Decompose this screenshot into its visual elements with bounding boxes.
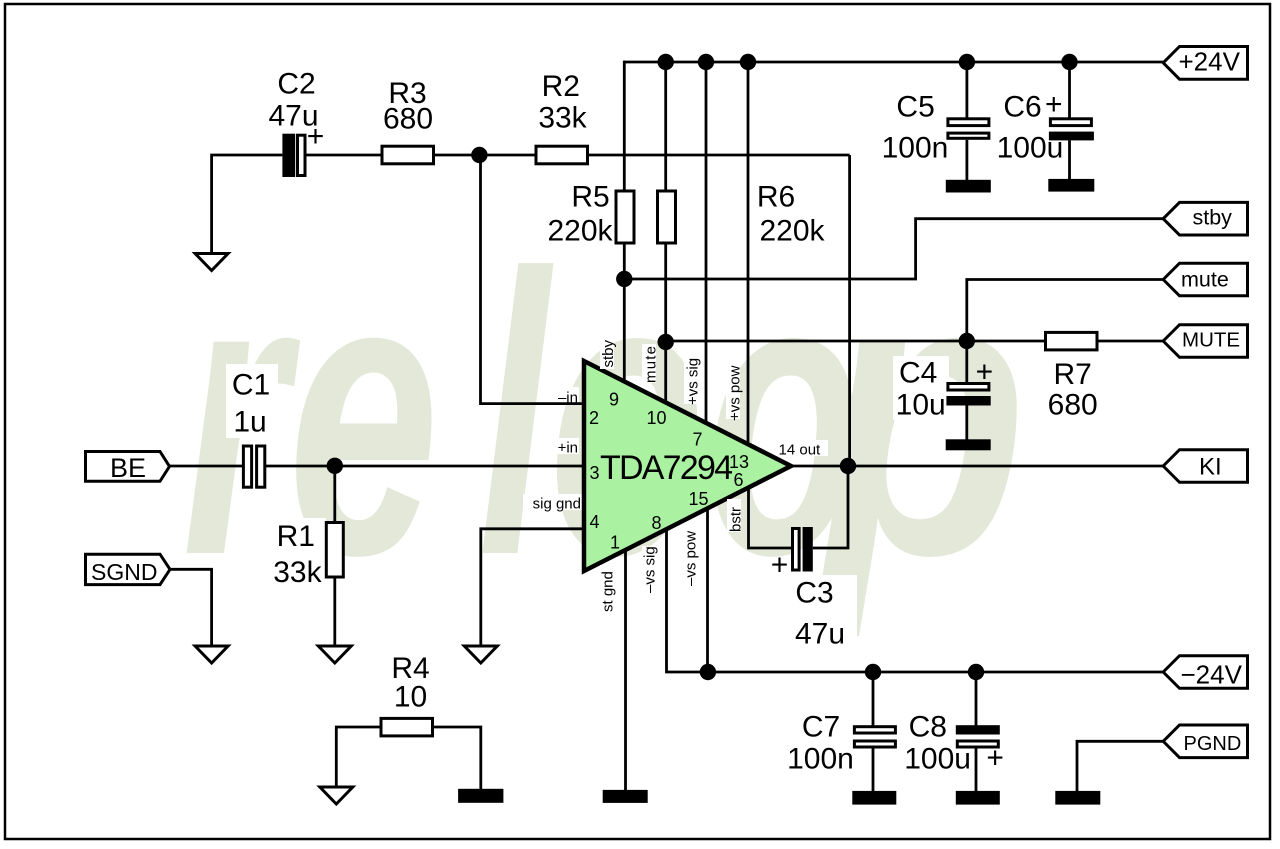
svg-text:33k: 33k	[538, 102, 587, 135]
op-amp U1 TDA7294	[584, 361, 791, 571]
wire C8 bottom	[975, 749, 978, 792]
flag BE	[86, 452, 170, 484]
wire C6 tap	[1068, 62, 1071, 118]
wire R6 to mute pin	[664, 243, 667, 402]
svg-text:9: 9	[609, 390, 619, 410]
wire C2 left to ground	[212, 155, 283, 254]
wire feedback vertical to output	[848, 155, 851, 466]
svg-text:10: 10	[646, 408, 666, 428]
flag stby	[1163, 202, 1247, 235]
wire C7 top	[872, 672, 875, 726]
pin label +vs pow	[726, 365, 744, 421]
resistor R5	[547, 181, 634, 248]
svg-text:SGND: SGND	[91, 559, 157, 585]
svg-text:R5: R5	[571, 181, 609, 214]
node rail mute	[658, 54, 674, 70]
capacitor C4	[893, 356, 993, 422]
svg-text:+: +	[307, 120, 325, 153]
svg-text:1: 1	[610, 533, 620, 553]
svg-text:+vs sig: +vs sig	[685, 358, 702, 405]
wire C1 to +in	[266, 465, 585, 468]
ground GND3 (SGND)	[195, 646, 228, 663]
ground bar C8	[956, 791, 1000, 805]
svg-text:+24V: +24V	[1179, 47, 1241, 77]
flag +24V	[1163, 47, 1247, 80]
svg-text:100u: 100u	[997, 132, 1064, 165]
wire C5 taps	[966, 62, 969, 118]
pin label +vs sig	[684, 357, 702, 405]
ground GND1 (C2)	[195, 254, 228, 271]
flag mute	[1163, 263, 1247, 296]
wire C4 bottom	[965, 406, 968, 440]
wire st gnd line	[624, 549, 627, 790]
svg-text:220k: 220k	[547, 215, 613, 248]
node mute pin	[658, 334, 674, 350]
wire +vs pow line	[747, 62, 750, 445]
wire R1 top	[333, 466, 336, 523]
pin label bstr	[727, 499, 745, 532]
wire bstr to C3	[749, 487, 792, 548]
resistor R6	[658, 181, 826, 248]
svg-text:8: 8	[651, 513, 661, 533]
svg-text:15: 15	[688, 489, 708, 509]
wire C4 top	[965, 341, 968, 384]
pin label +in	[545, 438, 579, 457]
capacitor C1	[226, 364, 278, 487]
svg-text:stby: stby	[600, 339, 617, 367]
resistor R7	[1046, 332, 1098, 421]
node A (R3/R2/-in junction)	[471, 147, 487, 163]
resistor R1	[270, 518, 343, 589]
capacitor C8	[904, 711, 1004, 776]
ground bar st gnd	[603, 790, 648, 803]
svg-text:+: +	[976, 356, 994, 389]
svg-text:C4: C4	[899, 357, 937, 390]
flag PGND	[1163, 725, 1247, 758]
wire C8 top	[975, 672, 978, 726]
wire R4 left to ground	[336, 727, 381, 787]
svg-text:C7: C7	[802, 711, 840, 744]
pin label -vs pow	[683, 531, 700, 586]
wire C7 bottom	[872, 749, 875, 792]
svg-text:R1: R1	[277, 520, 315, 553]
wire sig gnd to ground	[481, 529, 585, 646]
capacitor C2	[268, 68, 324, 178]
node stby	[616, 271, 632, 287]
pin label -in	[545, 387, 579, 407]
flag KI	[1163, 450, 1247, 483]
wire R7 to MUTE flag	[1097, 340, 1164, 343]
wire PGND to ground	[1077, 741, 1163, 791]
svg-text:R7: R7	[1054, 358, 1092, 391]
svg-text:33k: 33k	[273, 556, 322, 589]
flag MUTE	[1163, 325, 1247, 358]
svg-text:47u: 47u	[795, 618, 845, 651]
svg-text:100n: 100n	[882, 132, 949, 165]
svg-text:−24V: −24V	[1181, 660, 1243, 690]
resistor R4	[381, 652, 433, 736]
svg-text:st gnd: st gnd	[600, 571, 617, 612]
wire -vs sig line	[667, 529, 1165, 673]
svg-text:–in: –in	[558, 390, 578, 407]
svg-text:3: 3	[589, 463, 599, 483]
node rail C5	[959, 54, 975, 70]
pin label stby	[600, 336, 617, 369]
wire +vs sig line	[705, 62, 708, 425]
svg-text:4: 4	[589, 512, 599, 532]
node -24V rail -vs pow	[700, 664, 716, 680]
svg-text:mute: mute	[643, 346, 660, 383]
svg-text:220k: 220k	[759, 215, 825, 248]
pin label st gnd	[600, 565, 617, 612]
node rail +vs pow	[740, 54, 756, 70]
svg-text:–vs sig: –vs sig	[642, 546, 659, 593]
svg-text:R2: R2	[542, 70, 580, 103]
wire R3 to R2	[434, 154, 537, 157]
svg-text:TDA7294: TDA7294	[600, 449, 733, 487]
svg-text:MUTE: MUTE	[1182, 329, 1240, 352]
svg-text:+vs pow: +vs pow	[727, 365, 744, 421]
svg-text:14 out: 14 out	[779, 442, 822, 459]
node rail C6	[1061, 54, 1077, 70]
svg-text:2: 2	[589, 408, 599, 428]
svg-text:+: +	[986, 742, 1004, 775]
svg-text:+: +	[771, 549, 789, 582]
svg-text:680: 680	[383, 103, 433, 136]
svg-text:KI: KI	[1199, 454, 1222, 481]
wire R4 right to ground	[433, 727, 481, 789]
flag SGND	[86, 554, 171, 585]
svg-text:mute: mute	[1181, 267, 1229, 291]
svg-text:C5: C5	[896, 91, 934, 124]
ground bar C5	[946, 180, 991, 193]
wire C6 to ground	[1068, 140, 1071, 179]
ground GND5 (R4)	[320, 787, 353, 804]
node -24V rail C8	[968, 664, 984, 680]
node out	[840, 458, 856, 474]
svg-text:C8: C8	[909, 711, 947, 744]
svg-text:C1: C1	[232, 369, 270, 402]
node rail +vs sig	[698, 54, 714, 70]
flag -24V	[1163, 656, 1247, 690]
pin label 14 out	[776, 440, 828, 459]
capacitor C3	[771, 527, 857, 651]
ground GND4 (sig gnd)	[464, 646, 497, 663]
wire BE to C1	[170, 465, 243, 468]
svg-text:680: 680	[1048, 389, 1098, 422]
wire mute flag	[967, 280, 1164, 342]
svg-text:7: 7	[692, 430, 702, 450]
pin label -vs sig	[642, 546, 659, 593]
svg-text:bstr: bstr	[728, 507, 745, 532]
wire output to KI	[791, 465, 1164, 468]
svg-text:1u: 1u	[233, 406, 266, 439]
svg-text:10: 10	[394, 681, 427, 714]
wire R2 to feedback corner	[588, 154, 850, 157]
wire -vs pow line	[706, 508, 709, 672]
node C4/R7	[959, 333, 975, 349]
wire +24V rail	[624, 61, 1164, 64]
svg-text:100u: 100u	[904, 743, 971, 776]
capacitor C6	[997, 88, 1094, 165]
node B (+in/R1)	[327, 458, 343, 474]
wire C3 to output	[813, 466, 848, 548]
wire R1 to ground	[333, 577, 336, 646]
svg-text:+in: +in	[558, 440, 578, 457]
ground bar R4	[458, 789, 503, 803]
pin label sig gnd	[523, 494, 583, 513]
svg-text:–vs pow: –vs pow	[683, 531, 700, 586]
capacitor C5	[882, 91, 989, 165]
svg-text:BE: BE	[110, 453, 146, 483]
svg-text:6: 6	[733, 470, 743, 490]
svg-text:13: 13	[729, 452, 749, 472]
resistor R3	[382, 77, 434, 164]
wire C5 to ground	[966, 140, 969, 180]
svg-text:PGND: PGND	[1184, 733, 1242, 755]
node -24V rail C7	[865, 664, 881, 680]
wire C2 to R3	[305, 154, 382, 157]
svg-text:sig gnd: sig gnd	[533, 496, 581, 513]
svg-text:C2: C2	[277, 68, 315, 101]
svg-text:C6: C6	[1003, 91, 1041, 124]
wire SGND to ground	[170, 569, 212, 646]
pin label mute	[642, 344, 660, 383]
svg-text:+: +	[1045, 88, 1063, 121]
wire stby branch to flag	[624, 219, 1164, 279]
svg-text:10u: 10u	[896, 389, 946, 422]
capacitor C7	[787, 711, 895, 776]
ground bar C6	[1048, 179, 1094, 192]
resistor R2	[536, 70, 588, 164]
svg-text:R6: R6	[757, 181, 795, 214]
ground bar C4	[946, 439, 991, 450]
wire R5 to stby pin	[623, 243, 626, 384]
ground bar PGND	[1055, 791, 1100, 805]
wire mute line upper	[664, 62, 667, 191]
wire -in feedback tap	[481, 155, 586, 404]
ground GND2 (R1)	[318, 646, 351, 663]
wire MUTE row	[666, 340, 1046, 343]
svg-text:C3: C3	[795, 577, 833, 610]
svg-text:100n: 100n	[787, 743, 854, 776]
ground bar C7	[852, 791, 896, 805]
wire stby line upper	[623, 61, 626, 191]
svg-text:stby: stby	[1193, 205, 1233, 229]
